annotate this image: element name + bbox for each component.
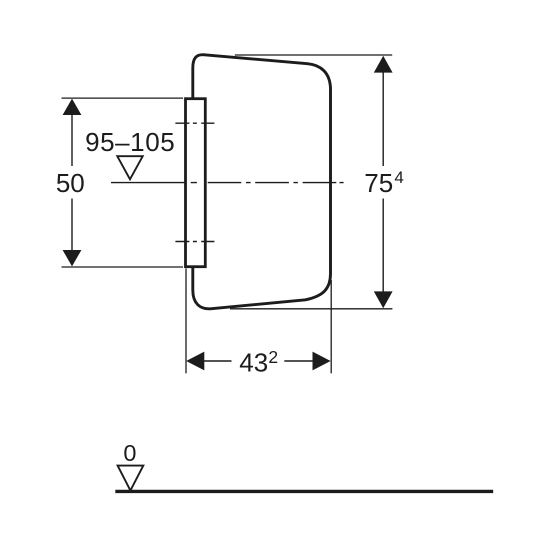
dim 43 line right segment: [284, 360, 313, 362]
dim 43 line left segment: [204, 360, 232, 362]
dim 75 arrow up: [374, 56, 393, 73]
dim 75 line lower segment: [382, 199, 384, 293]
svg-text:754: 754: [364, 168, 404, 198]
dim 75 top extension line: [235, 54, 392, 56]
product body outline: [193, 55, 331, 309]
main horizontal centerline: [111, 182, 344, 184]
dim 75 arrow down: [374, 291, 393, 308]
mounting rail bracket: [186, 99, 206, 267]
svg-text:432: 432: [239, 347, 278, 378]
dim 75 line upper segment: [382, 72, 384, 166]
dim 50 arrow up: [63, 99, 82, 115]
dim 75 bottom extension line: [230, 308, 392, 310]
svg-text:0: 0: [123, 440, 136, 466]
dim 50 line upper segment: [71, 114, 73, 166]
floor level triangle: [118, 466, 144, 491]
dim 43 right extension line: [330, 280, 332, 373]
dim 43 left extension line: [185, 269, 187, 374]
lower fixing centerline: [175, 241, 214, 243]
dim 43 arrow left: [186, 352, 204, 371]
dim 43 arrow right: [313, 352, 331, 371]
floor line: [115, 490, 493, 493]
water level triangle 95-105: [117, 156, 142, 179]
svg-text:50: 50: [56, 168, 85, 198]
dim 50 arrow down: [63, 250, 82, 266]
dim 50 line lower segment: [71, 199, 73, 252]
upper fixing centerline: [175, 122, 214, 124]
dim 50 bottom extension line: [62, 266, 184, 268]
dim 50 top extension line: [62, 97, 184, 99]
svg-text:95–105: 95–105: [85, 127, 175, 157]
